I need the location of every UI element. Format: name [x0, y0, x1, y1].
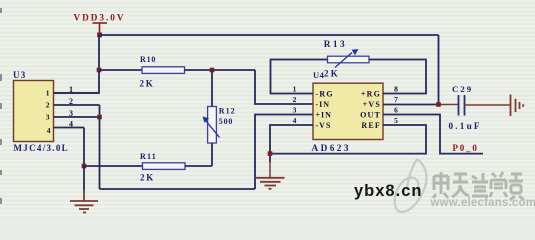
svg-text:5: 5	[394, 116, 398, 125]
watermark swirl logo	[395, 159, 427, 212]
wire U3 pin1 riser	[54, 70, 100, 93]
svg-text:www.elecfans.com: www.elecfans.com	[430, 197, 535, 209]
U3 pin 1	[46, 85, 99, 98]
wire U4 pin6 OUT to port	[383, 115, 483, 154]
svg-text:2K: 2K	[140, 78, 155, 88]
svg-text:R12: R12	[219, 106, 236, 115]
svg-text:3: 3	[69, 109, 73, 118]
svg-text:C29: C29	[452, 84, 473, 94]
svg-text:7: 7	[394, 95, 398, 104]
ground (under U4)	[256, 178, 285, 189]
svg-text:+IN: +IN	[316, 110, 332, 119]
svg-text:2K: 2K	[140, 173, 155, 183]
edge scan artifacts	[0, 8, 2, 204]
wire R10 output drop to U4 -IN	[255, 70, 313, 104]
svg-text:2: 2	[46, 101, 50, 110]
svg-text:AD623: AD623	[312, 144, 351, 154]
power flag VDD3.0V	[74, 12, 126, 35]
svg-text:4: 4	[47, 126, 51, 135]
svg-text:2: 2	[69, 97, 73, 106]
svg-text:U4: U4	[313, 70, 325, 80]
resistor R11	[84, 152, 212, 183]
U3 pin 4	[47, 119, 84, 135]
svg-text:ybx8.cn: ybx8.cn	[354, 182, 422, 200]
svg-text:+RG: +RG	[361, 89, 381, 98]
node pin4/R11/gnd junction	[82, 164, 87, 169]
svg-text:-RG: -RG	[316, 89, 334, 98]
watermark chinese characters	[433, 172, 524, 200]
svg-text:REF: REF	[361, 121, 381, 130]
in-amp U4 AD623	[312, 70, 384, 154]
wire U4 pin4 -VS down	[270, 125, 313, 162]
svg-text:0.1uF: 0.1uF	[449, 121, 482, 131]
wire center-tap drop to bottom rail	[99, 117, 101, 189]
svg-text:MJC4/3.0L: MJC4/3.0L	[14, 143, 69, 153]
wire U4 pin1 to RG loop	[271, 60, 328, 94]
wire rail riser to U4 +IN	[255, 115, 313, 190]
svg-text:VDD3.0V: VDD3.0V	[74, 12, 126, 22]
svg-text:1: 1	[69, 85, 73, 94]
svg-text:4: 4	[293, 116, 297, 125]
svg-text:P0_0: P0_0	[453, 143, 479, 153]
wire bottom rail	[100, 188, 256, 190]
svg-text:-VS: -VS	[316, 121, 332, 130]
resistor R10	[99, 55, 255, 88]
wire U4 pin7 +VS to supply	[383, 104, 439, 106]
junction on VDD rail	[97, 33, 102, 38]
svg-text:8: 8	[394, 85, 398, 94]
svg-text:3: 3	[46, 113, 50, 122]
earth ground (right)	[511, 95, 524, 117]
svg-text:U3: U3	[13, 70, 26, 80]
svg-text:R13: R13	[324, 40, 347, 50]
wire VDD top rail	[100, 34, 439, 36]
svg-text:1: 1	[293, 85, 297, 94]
svg-text:500: 500	[219, 117, 233, 126]
svg-text:1: 1	[46, 89, 50, 98]
svg-text:+VS: +VS	[363, 100, 381, 109]
potentiometer R12	[203, 70, 236, 166]
wire U4 pin5 REF return	[270, 125, 426, 154]
wire U3 pin2 jog down to pin3	[99, 105, 101, 117]
wire C29 to earth	[465, 104, 511, 106]
ground (left, under U3)	[70, 190, 98, 213]
svg-text:3: 3	[293, 106, 297, 115]
potentiometer R13	[324, 40, 369, 79]
node U3 pin2/3 tie	[97, 115, 102, 120]
node VDD/R10 junction	[97, 68, 102, 73]
node +VS/VDD/C29 junction	[436, 102, 441, 107]
svg-text:2K: 2K	[324, 68, 340, 78]
svg-text:OUT: OUT	[360, 110, 381, 119]
svg-text:2: 2	[293, 95, 297, 104]
wire junction to ground	[83, 166, 85, 190]
U3 pin 3	[46, 109, 100, 122]
sensor U3	[13, 70, 69, 153]
node R10/R12 junction	[210, 68, 215, 73]
svg-text:-IN: -IN	[316, 100, 331, 109]
svg-text:R10: R10	[140, 55, 156, 64]
wire VDD left drop	[98, 35, 100, 70]
node -VS/REF junction	[268, 151, 273, 156]
svg-text:6: 6	[394, 106, 398, 115]
svg-text:R11: R11	[140, 152, 157, 161]
capacitor C29	[449, 84, 482, 131]
wire R13 right to U4 pin8	[369, 60, 426, 94]
U3 pin 2	[46, 97, 100, 110]
wire VDD rail right drop	[438, 35, 440, 105]
wire U3 pin4 down	[83, 128, 85, 167]
svg-text:4: 4	[69, 119, 73, 128]
